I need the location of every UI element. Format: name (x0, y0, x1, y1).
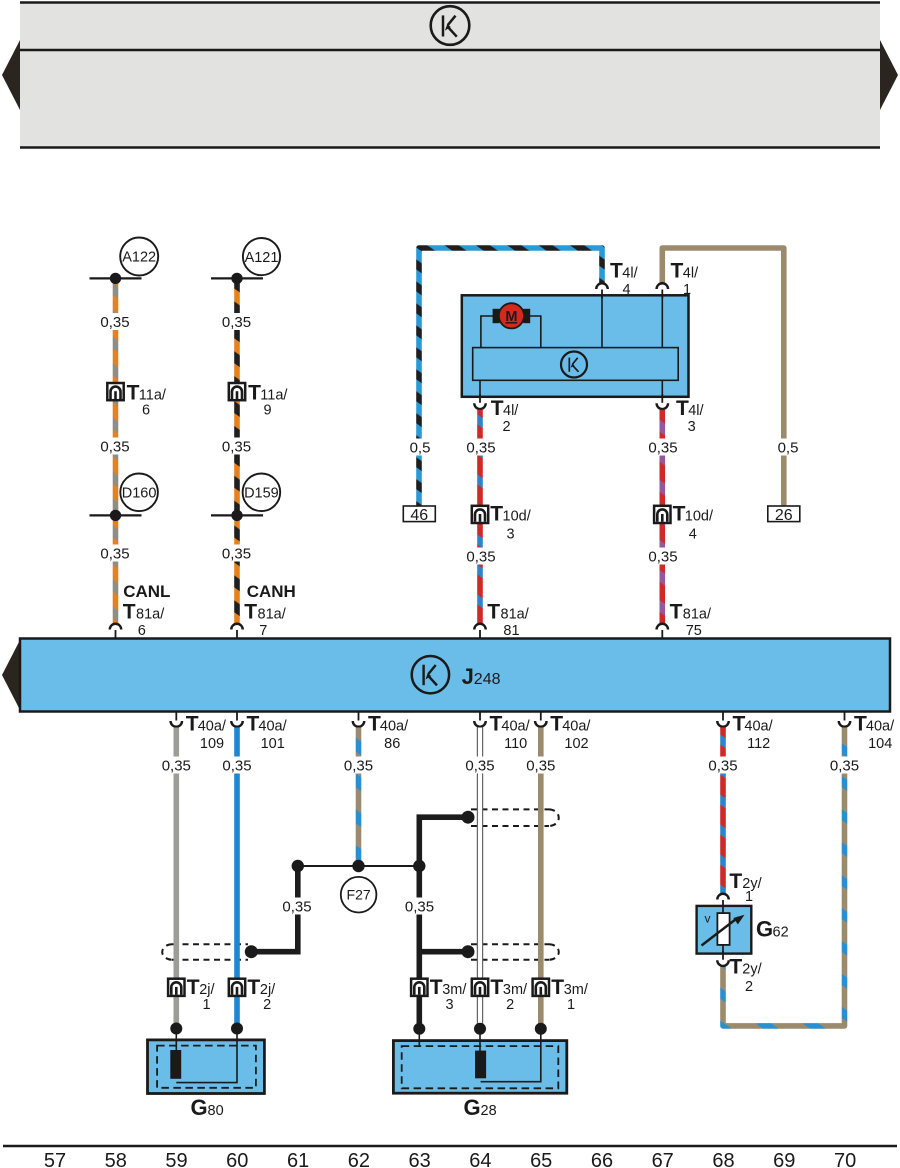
terminal arc T4l/4 (596, 283, 608, 298)
node box 26 (768, 506, 800, 524)
wire red/violet T4l/3 to T81a/75 (659, 410, 665, 623)
junction dot A122 (110, 273, 121, 284)
svg-text:T: T (729, 956, 742, 979)
svg-text:62: 62 (773, 924, 789, 940)
banner background (20, 2, 880, 148)
wire tan/blue T40a/86 to F27 node (356, 728, 362, 867)
svg-text:0,35: 0,35 (405, 899, 434, 916)
svg-text:T: T (487, 601, 500, 624)
pin label T40a/109 (186, 713, 227, 752)
connector T2j/1 (168, 976, 215, 1013)
wire label 0,35 (220, 313, 255, 331)
junction dot A121 (231, 273, 242, 284)
svg-text:40a/: 40a/ (198, 719, 227, 735)
connector T10d/4 (654, 503, 714, 543)
component box J-unit with motor (462, 295, 689, 397)
svg-text:81: 81 (503, 623, 519, 639)
designator G28 (464, 1095, 497, 1120)
svg-text:104: 104 (868, 736, 892, 752)
connector T3m/3 (411, 976, 467, 1013)
svg-text:2y/: 2y/ (742, 962, 762, 978)
wire label 0,35 (shield left) (280, 898, 315, 916)
wire label 0,35 (220, 438, 255, 456)
svg-text:0,35: 0,35 (162, 758, 191, 775)
svg-text:T: T (430, 976, 443, 999)
svg-text:0,35: 0,35 (222, 546, 251, 563)
node bar D160 (90, 514, 142, 516)
connector T3m/1 (533, 976, 589, 1013)
banner left arrow (2, 40, 20, 110)
svg-text:2j/: 2j/ (199, 982, 215, 998)
shield capsule lower right (G28 pair) (471, 944, 559, 959)
track baseline (3, 1145, 897, 1148)
svg-text:D159: D159 (244, 486, 279, 502)
pin label T2y/2 (729, 956, 762, 996)
junction dot (F27 node) (352, 860, 364, 872)
svg-text:2: 2 (263, 997, 271, 1013)
junction dot D160 (110, 510, 121, 521)
svg-text:9: 9 (263, 403, 271, 419)
svg-text:3m/: 3m/ (503, 982, 528, 998)
svg-text:61: 61 (287, 1150, 309, 1168)
svg-text:66: 66 (591, 1150, 613, 1168)
svg-text:60: 60 (226, 1150, 248, 1168)
svg-text:1: 1 (202, 997, 210, 1013)
svg-text:26: 26 (775, 507, 793, 524)
svg-text:4l/: 4l/ (503, 403, 519, 419)
junction dot (left branch) (292, 860, 304, 872)
junction dot (right branch) (413, 860, 425, 872)
wire brown T40a/102 to G28 (538, 728, 544, 1029)
wire label 0,35 (86) (341, 757, 376, 775)
svg-text:110: 110 (504, 736, 527, 752)
svg-text:0,35: 0,35 (466, 440, 495, 457)
wire red/blue T40a/112 to G62 (720, 728, 726, 894)
banner K circle (431, 6, 470, 45)
G28 sensing element (475, 1051, 486, 1079)
svg-text:46: 46 (410, 507, 428, 524)
pin label T81a/81 (487, 601, 529, 640)
svg-text:40a/: 40a/ (562, 719, 591, 735)
shield dot left capsule (245, 945, 258, 958)
svg-text:T: T (490, 976, 503, 999)
connector T3m/2 (472, 976, 528, 1013)
wire blue/black T4l/4 to node 46 (419, 248, 602, 506)
G80 box (148, 1040, 265, 1094)
terminal dot G28/2 (474, 1023, 486, 1035)
pin label T40a/101 (247, 713, 288, 752)
svg-text:0,35: 0,35 (222, 314, 251, 331)
svg-text:0,35: 0,35 (708, 758, 737, 775)
svg-text:1: 1 (745, 889, 753, 905)
svg-text:0,5: 0,5 (410, 440, 431, 457)
G62 resistor body (717, 913, 729, 945)
G62 variable arrow (702, 915, 745, 946)
wire label 0,35 (104) (827, 757, 862, 775)
node circle D159 (243, 474, 281, 512)
svg-text:3: 3 (445, 997, 453, 1013)
node circle D160 (120, 474, 158, 512)
wire label 0,35 (98, 545, 133, 563)
svg-text:109: 109 (200, 736, 224, 752)
terminal arc T4l/1 (657, 283, 669, 298)
terminal arc T81a/75 (657, 624, 669, 639)
svg-text:10d/: 10d/ (503, 509, 532, 525)
svg-text:28: 28 (481, 1103, 497, 1119)
svg-text:68: 68 (712, 1150, 734, 1168)
terminal arc T4l/3 (657, 394, 669, 409)
svg-text:0,35: 0,35 (222, 758, 251, 775)
svg-text:0,35: 0,35 (830, 758, 859, 775)
svg-text:65: 65 (530, 1150, 552, 1168)
wire white T40a/110 to G28 (477, 728, 483, 1029)
svg-text:75: 75 (686, 623, 702, 639)
svg-text:248: 248 (474, 671, 501, 688)
pin label T81a/6 (123, 601, 165, 640)
banner right arrow (880, 40, 898, 110)
svg-text:64: 64 (469, 1150, 491, 1168)
svg-text:T: T (551, 976, 564, 999)
wire label 0,35 (shield right) (402, 898, 437, 916)
pin label T40a/110 (490, 713, 531, 752)
junction dot D159 (231, 510, 242, 521)
svg-text:81a/: 81a/ (258, 607, 287, 623)
pin label T81a/7 (244, 601, 286, 640)
connector T11a/9 (229, 382, 289, 419)
svg-text:40a/: 40a/ (866, 719, 895, 735)
svg-text:6: 6 (138, 623, 146, 639)
svg-text:CANH: CANH (247, 582, 296, 601)
node circle A121 (243, 238, 280, 275)
svg-text:3m/: 3m/ (442, 982, 467, 998)
internal wire from motor left (481, 316, 493, 348)
wire brown T4l/1 to node 26 (662, 248, 784, 506)
pin label T81a/75 (670, 601, 712, 640)
svg-text:2: 2 (745, 979, 753, 995)
internal control-unit rectangle (473, 348, 679, 381)
svg-text:6: 6 (142, 403, 150, 419)
terminal arc T81a/7 (231, 624, 243, 639)
pin label T2y/1 (729, 870, 762, 905)
node bar A121 (211, 277, 263, 279)
svg-text:T: T (123, 601, 136, 624)
G80 pin line 1 (175, 1029, 177, 1053)
svg-text:G: G (756, 916, 773, 941)
svg-text:112: 112 (747, 736, 770, 752)
terminal arc T40a/102 (535, 712, 547, 727)
svg-text:T: T (244, 601, 257, 624)
terminal dot G28 shield (413, 1023, 425, 1035)
terminal arc T40a/101 (231, 712, 243, 727)
svg-text:T: T (729, 870, 742, 893)
pin label T40a/86 (368, 713, 409, 752)
pin label T40a/102 (550, 713, 591, 752)
shield capsule left (G80 pair) (162, 944, 248, 959)
wire label 0,35 (109) (159, 757, 194, 775)
svg-text:81a/: 81a/ (683, 607, 712, 623)
svg-text:0,35: 0,35 (465, 758, 494, 775)
internal wire pin 4 (601, 295, 603, 347)
wire label 0,35 (220, 545, 255, 563)
wire label 0,5 (right) (774, 439, 802, 457)
svg-text:0,35: 0,35 (100, 314, 129, 331)
svg-text:2: 2 (506, 997, 514, 1013)
terminal dot G28/1 (535, 1023, 547, 1035)
svg-text:0,35: 0,35 (222, 439, 251, 456)
svg-text:40a/: 40a/ (501, 719, 530, 735)
svg-text:11a/: 11a/ (260, 388, 288, 404)
svg-text:D160: D160 (122, 486, 157, 502)
svg-text:40a/: 40a/ (744, 719, 773, 735)
svg-text:11a/: 11a/ (139, 388, 167, 404)
svg-text:2j/: 2j/ (260, 982, 276, 998)
svg-text:CANL: CANL (123, 582, 170, 601)
svg-text:57: 57 (44, 1150, 66, 1168)
terminal arc T40a/109 (171, 712, 183, 727)
terminal arc T40a/110 (474, 712, 486, 727)
svg-text:v: v (705, 912, 711, 926)
svg-text:2: 2 (502, 419, 510, 435)
wire brown/blue G62 to T40a/104 (723, 728, 845, 1026)
svg-text:58: 58 (105, 1150, 127, 1168)
svg-text:T: T (247, 976, 260, 999)
motor M symbol (493, 303, 531, 328)
wire shield left branch (251, 866, 297, 952)
svg-text:40a/: 40a/ (380, 719, 409, 735)
shield dot upper right capsule (462, 811, 475, 824)
banner top border (20, 1, 880, 4)
svg-text:0,35: 0,35 (282, 899, 311, 916)
wire label 0,35 (102) (524, 757, 559, 775)
G28 box (393, 1041, 566, 1094)
svg-text:G: G (464, 1095, 481, 1120)
node bar D159 (211, 514, 263, 516)
svg-text:81a/: 81a/ (501, 607, 530, 623)
wire label 0,35 (112) (706, 757, 741, 775)
svg-text:T: T (673, 503, 686, 526)
svg-text:T: T (187, 976, 200, 999)
wire label 0,35 (110) (463, 757, 498, 775)
node circle A122 (120, 238, 158, 276)
banner bottom border (20, 146, 880, 149)
svg-text:3: 3 (506, 527, 514, 543)
svg-text:T: T (248, 382, 261, 405)
wire label 0,35 (T4l/2) (464, 439, 499, 457)
wire label 0,5 (left) (406, 439, 434, 457)
internal wire pin 3 (661, 380, 663, 397)
svg-text:70: 70 (834, 1150, 856, 1168)
svg-text:T: T (491, 397, 504, 420)
pin label T4l/1 (671, 260, 700, 299)
terminal arc T81a/6 (110, 624, 122, 639)
pin label T4l/3 (676, 397, 704, 435)
svg-text:T: T (127, 382, 140, 405)
wire shield stub to lower capsule (419, 949, 468, 955)
control unit K circle (561, 352, 587, 378)
pin label T40a/104 (854, 713, 895, 752)
wire shield bus (thin) (298, 865, 420, 867)
connector T2j/2 (229, 976, 276, 1013)
svg-text:101: 101 (261, 736, 285, 752)
svg-text:63: 63 (408, 1150, 430, 1168)
terminal dot G80/1 (170, 1023, 182, 1035)
wire label 0,35 (below T10d/4) (646, 548, 681, 566)
svg-text:0,35: 0,35 (648, 549, 677, 566)
wire CANL orange/gray (113, 279, 119, 623)
designator G62 (756, 916, 789, 941)
designator G80 (191, 1095, 224, 1120)
banner divider (20, 49, 880, 52)
wire label 0,35 (below T10d/3) (464, 548, 499, 566)
svg-text:59: 59 (165, 1150, 187, 1168)
svg-text:4l/: 4l/ (622, 266, 638, 282)
svg-text:86: 86 (384, 736, 400, 752)
internal wire from motor right (530, 316, 541, 348)
svg-text:62: 62 (348, 1150, 370, 1168)
connector T10d/3 (472, 503, 532, 543)
svg-text:40a/: 40a/ (258, 719, 287, 735)
wire gray T40a/109 to G80 (174, 728, 180, 1029)
designator J248 (462, 664, 501, 689)
svg-text:69: 69 (773, 1150, 795, 1168)
J248 K circle (412, 656, 449, 693)
svg-text:A122: A122 (122, 250, 156, 266)
pin label T4l/2 (491, 397, 519, 435)
wire label 0,35 (98, 313, 133, 331)
svg-text:T: T (490, 503, 503, 526)
G80 sensing element (170, 1050, 181, 1079)
svg-text:0,35: 0,35 (466, 549, 495, 566)
node bar A122 (90, 277, 142, 279)
node circle F27 (341, 877, 377, 913)
pin label T4l/4 (610, 260, 639, 299)
terminal arc T2y/2 (717, 951, 729, 966)
terminal arc T2y/1 (717, 894, 729, 909)
svg-text:T: T (670, 601, 683, 624)
svg-text:4l/: 4l/ (683, 266, 699, 282)
svg-text:1: 1 (567, 997, 575, 1013)
svg-text:0,35: 0,35 (344, 758, 373, 775)
svg-text:0,35: 0,35 (526, 758, 555, 775)
J248 left arrow (2, 640, 20, 710)
svg-text:3: 3 (688, 419, 696, 435)
svg-text:4l/: 4l/ (688, 403, 704, 419)
svg-text:3m/: 3m/ (564, 982, 589, 998)
svg-text:F27: F27 (347, 887, 371, 903)
svg-text:4: 4 (622, 282, 630, 298)
svg-text:102: 102 (564, 736, 588, 752)
terminal arc T40a/104 (839, 712, 851, 727)
terminal arc T81a/81 (474, 624, 486, 639)
svg-text:1: 1 (683, 282, 691, 298)
svg-text:0,5: 0,5 (778, 440, 799, 457)
pin label T40a/112 (733, 713, 774, 752)
svg-text:4: 4 (689, 527, 697, 543)
connector T11a/6 (107, 382, 167, 419)
G62 internal pin wires (722, 906, 724, 914)
node box 46 (403, 506, 435, 524)
terminal arc T4l/2 (474, 394, 486, 409)
svg-text:81a/: 81a/ (136, 607, 165, 623)
svg-text:T: T (676, 397, 689, 420)
track numbers (44, 1150, 856, 1168)
G80 dashed inner (157, 1046, 256, 1088)
wire shield right upper branch (419, 817, 468, 1029)
svg-text:0,35: 0,35 (648, 440, 677, 457)
svg-text:T: T (610, 260, 623, 283)
internal wire pin 2 (479, 380, 481, 397)
svg-text:10d/: 10d/ (685, 509, 714, 525)
terminal dot G80/2 (231, 1023, 243, 1035)
terminal arc T40a/112 (717, 712, 729, 727)
svg-text:0,35: 0,35 (100, 546, 129, 563)
G28 shield pin line (418, 1029, 420, 1046)
wire label 0,35 (101) (220, 757, 255, 775)
wire label 0,35 (T4l/3) (646, 439, 681, 457)
internal wire pin 1 (661, 295, 663, 347)
G62 box (697, 906, 752, 954)
svg-text:G: G (191, 1095, 208, 1120)
shield dot lower right capsule (462, 945, 475, 958)
svg-text:J: J (462, 664, 474, 689)
svg-text:A121: A121 (245, 250, 279, 266)
wire CANH orange/black (234, 279, 240, 623)
G80 pin line 2 (176, 1029, 237, 1083)
svg-text:7: 7 (259, 623, 267, 639)
svg-text:80: 80 (208, 1103, 224, 1119)
G28 pin line 1 (481, 1029, 541, 1082)
wire label 0,35 (98, 438, 133, 456)
shield capsule upper right (G28 pair) (471, 809, 559, 826)
G28 dashed inner (402, 1046, 559, 1088)
svg-text:67: 67 (652, 1150, 674, 1168)
wire red/blue T4l/2 to T81a/81 (477, 410, 483, 623)
G28 pin line 2 (479, 1029, 481, 1052)
J248 bar (20, 639, 890, 712)
svg-text:T: T (671, 260, 684, 283)
svg-text:0,35: 0,35 (100, 439, 129, 456)
wire blue T40a/101 to G80 (234, 728, 240, 1029)
terminal arc T40a/86 (353, 712, 365, 727)
